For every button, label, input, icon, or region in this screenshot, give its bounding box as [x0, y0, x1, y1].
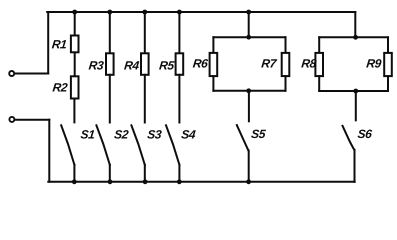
label S2 — [114, 130, 128, 139]
wire R5 to S4 — [178, 75, 180, 123]
node top rail / R3 branch — [107, 10, 112, 15]
wire S2 to bottom rail — [109, 165, 111, 182]
resistor R4 — [141, 53, 149, 75]
wire R7 lower — [285, 76, 287, 91]
switch S4 — [166, 125, 179, 165]
wire R6R7 bar to S5 — [248, 91, 250, 122]
wire S6 to bottom rail — [354, 150, 356, 182]
node bottom rail / S2 — [108, 179, 113, 184]
label S4 — [181, 130, 196, 139]
wire S5 to bottom rail — [248, 151, 250, 182]
resistor R3 — [106, 53, 114, 75]
label R2 — [52, 83, 67, 91]
node top rail / R1 branch — [72, 10, 77, 15]
resistor R9 — [384, 53, 392, 76]
resistor R7 — [282, 53, 290, 76]
switch S6 — [343, 126, 355, 150]
wire top rail — [47, 11, 355, 13]
wire R8 lower — [318, 76, 320, 91]
label R8 — [301, 59, 316, 67]
terminal T1 — [9, 71, 14, 76]
wire column D upper — [178, 12, 180, 53]
node bottom rail / S5 — [246, 179, 251, 184]
terminal T2 — [9, 117, 14, 122]
wire R7 upper — [285, 37, 287, 53]
wire R8R9 top bar — [319, 36, 388, 38]
switch S3 — [131, 125, 144, 165]
wire column A upper — [74, 12, 76, 35]
wire R6R7 top bar — [213, 36, 285, 38]
node R8R9 bottom bar — [353, 89, 358, 94]
label S5 — [251, 130, 266, 139]
switch S5 — [237, 125, 249, 150]
wire top rail to R6R7 bar — [248, 12, 250, 37]
wire R8R9 bottom bar — [319, 90, 388, 92]
wire T2 to bottom riser — [15, 119, 50, 121]
label S6 — [358, 130, 373, 139]
node R6R7 bottom bar — [246, 88, 251, 93]
node top rail / R4 branch — [142, 10, 147, 15]
resistor R5 — [176, 53, 184, 75]
label R3 — [89, 61, 104, 70]
label R1 — [52, 40, 66, 48]
wire R2 to S1 — [73, 99, 75, 123]
wire R6 upper — [212, 37, 214, 53]
node bottom rail / S4 — [177, 179, 182, 184]
switch S1 — [61, 125, 74, 165]
node bottom rail / S1 — [72, 179, 77, 184]
wire R4 to S3 — [144, 75, 146, 123]
wire R1-R2 — [74, 53, 76, 77]
node top rail / R6R7 group drop — [246, 10, 251, 15]
label S1 — [81, 130, 95, 139]
label R9 — [366, 59, 381, 68]
node R8R9 top bar — [353, 35, 358, 40]
wire R9 upper — [387, 37, 389, 53]
wire R3 to S2 — [109, 75, 111, 123]
wire bottom rail — [48, 181, 354, 183]
resistor R2 — [71, 76, 79, 98]
wire R8R9 bar to S6 — [355, 91, 357, 120]
label R7 — [261, 59, 277, 67]
wire R6 lower — [212, 76, 214, 91]
node bottom rail / S3 — [143, 179, 148, 184]
resistor R8 — [315, 53, 323, 76]
wire R8 upper — [318, 37, 320, 53]
wire S3 to bottom rail — [144, 165, 146, 182]
wire S1 to bottom rail — [73, 165, 75, 182]
label S3 — [147, 130, 161, 139]
switch S2 — [96, 125, 109, 165]
wire bottom riser down — [48, 120, 50, 182]
label R4 — [124, 61, 139, 69]
resistor R6 — [210, 53, 218, 76]
wire top rail right corner to R8R9 bar — [354, 12, 356, 37]
wire column C upper — [144, 12, 146, 53]
node top rail / R5 branch — [177, 10, 182, 15]
wire left riser up — [47, 12, 49, 74]
wire R6R7 bottom bar — [213, 90, 285, 92]
wire column B upper — [109, 12, 111, 53]
label R6 — [193, 59, 208, 68]
label R5 — [159, 61, 175, 69]
node R6R7 top bar — [246, 35, 251, 40]
resistor R1 — [71, 36, 79, 53]
wire R9 lower — [387, 76, 389, 91]
wire T1 to left riser — [15, 73, 49, 75]
wire S4 to bottom rail — [178, 165, 180, 182]
